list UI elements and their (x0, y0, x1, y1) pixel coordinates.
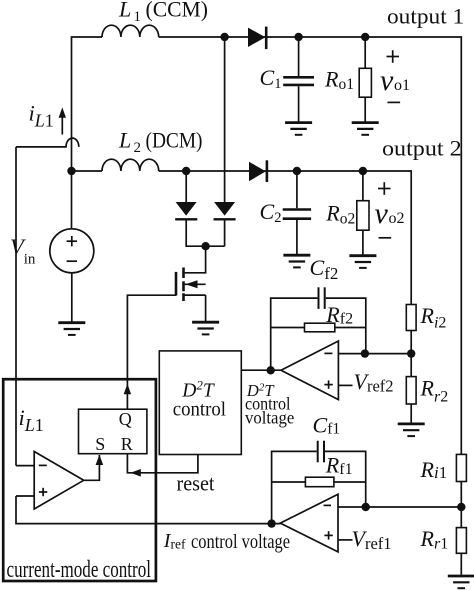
wire U1 minus input (338, 506, 461, 508)
minus U2 (324, 352, 332, 354)
node top-C1 (294, 33, 302, 41)
svg-text:1: 1 (134, 9, 142, 25)
wire MOSFET gate (127, 295, 176, 409)
wire diode branch right (224, 37, 226, 203)
svg-text:S: S (95, 434, 105, 454)
node U1 minus (362, 503, 370, 511)
op-amp U2 (281, 341, 338, 400)
capacitor C1 (283, 37, 314, 122)
svg-text:o2: o2 (389, 210, 405, 227)
svg-text:control voltage: control voltage (191, 532, 290, 553)
wire U2 minus input (338, 353, 411, 355)
ground Vin (58, 323, 85, 335)
resistor Rr1 (456, 528, 466, 575)
node L2-D3col (182, 167, 190, 175)
resistor Ri1 (456, 454, 466, 527)
node U2 minus (361, 349, 369, 357)
node Ri1-Rr1 (457, 503, 465, 511)
ground Rr2 (398, 424, 425, 436)
node Ri2-Rr2 (407, 349, 415, 357)
transistor Q1 (MOSFET) (176, 268, 206, 322)
wire feedback1 left (272, 451, 317, 523)
ground Ro1 (352, 123, 379, 135)
arrow iL1 (59, 107, 66, 134)
minus U3 (39, 464, 47, 466)
svg-text:voltage: voltage (245, 407, 294, 427)
wire U1 plus lead (338, 539, 353, 541)
voltage source Vin (50, 171, 94, 322)
label + vo1 - (380, 50, 410, 102)
op-amp U1 (280, 494, 338, 552)
minus U1 (324, 504, 331, 506)
capacitor Cf2 (319, 287, 366, 353)
wire D2T out (241, 369, 281, 371)
ground C1 (285, 123, 312, 135)
wire Iref control voltage (16, 496, 281, 524)
resistor Ro1 (359, 37, 371, 122)
node L2-left (67, 167, 75, 175)
node L2-Ro2 (359, 167, 367, 175)
ground Rr1 (448, 576, 474, 588)
node top-Ro1 (361, 33, 369, 41)
svg-text:current-mode control: current-mode control (7, 557, 152, 583)
resistor Ri2 (406, 305, 416, 377)
inductor L1 (102, 25, 159, 37)
wire diode branch left (186, 171, 224, 246)
wire L2 rail (72, 171, 412, 305)
svg-text:v: v (380, 64, 394, 97)
wire U3 plus input (16, 495, 34, 497)
resistor Ro2 (357, 171, 369, 255)
plus U3 (39, 488, 47, 496)
node U1 out (267, 519, 275, 527)
resistor Rf1 (272, 477, 366, 487)
node L2-C2 (293, 167, 301, 175)
wire reset (127, 454, 197, 473)
plus U1 (324, 531, 332, 539)
resistor Rf2 (271, 323, 366, 332)
node MOSFET drain (201, 242, 209, 250)
current sense hook (16, 138, 79, 147)
node D2T out (267, 366, 275, 374)
latch SR (79, 409, 147, 454)
box current-mode control (3, 379, 156, 581)
wire U3 out to S (84, 455, 100, 480)
svg-text:output 1: output 1 (387, 4, 464, 29)
inductor L2 (102, 159, 159, 171)
arrow reset (131, 469, 141, 477)
node top-D4 (220, 33, 228, 41)
arrow gate-drive up (124, 384, 131, 395)
diode D4 (vertical right) (214, 202, 236, 219)
ground C2 (283, 255, 310, 267)
diode D3 (vertical left) (175, 202, 197, 219)
wire U2 plus lead (338, 384, 352, 386)
wire feedback2 left (271, 298, 318, 370)
svg-text:(DCM): (DCM) (146, 128, 203, 153)
diode D2 (249, 160, 267, 182)
box D2T control (159, 351, 241, 455)
svg-text:control: control (173, 399, 227, 420)
ground MOSFET source (192, 322, 219, 334)
capacitor C2 (283, 171, 311, 254)
svg-text:2: 2 (134, 140, 142, 156)
svg-text:v: v (375, 197, 389, 230)
diode D1 (248, 27, 266, 49)
label + vo2 - (375, 182, 405, 238)
wire MOSFET drain (185, 246, 206, 273)
capacitor Cf1 (318, 441, 366, 507)
arrow into S (96, 455, 104, 465)
wire U3 minus input (16, 465, 34, 467)
svg-text:(CCM): (CCM) (146, 0, 209, 22)
svg-text:reset: reset (177, 471, 215, 496)
svg-text:R: R (121, 434, 133, 454)
svg-text:L: L (118, 0, 131, 22)
comparator U3 (34, 452, 83, 510)
resistor Rr2 (406, 377, 416, 423)
svg-text:Q: Q (119, 409, 132, 429)
ground Ro2 (349, 256, 376, 268)
plus U2 (324, 380, 332, 388)
svg-text:L: L (118, 128, 131, 153)
wire iL1 sense down (15, 147, 17, 466)
svg-text:output 2: output 2 (382, 135, 462, 160)
svg-text:o1: o1 (394, 77, 410, 94)
wire top rail (72, 37, 462, 454)
